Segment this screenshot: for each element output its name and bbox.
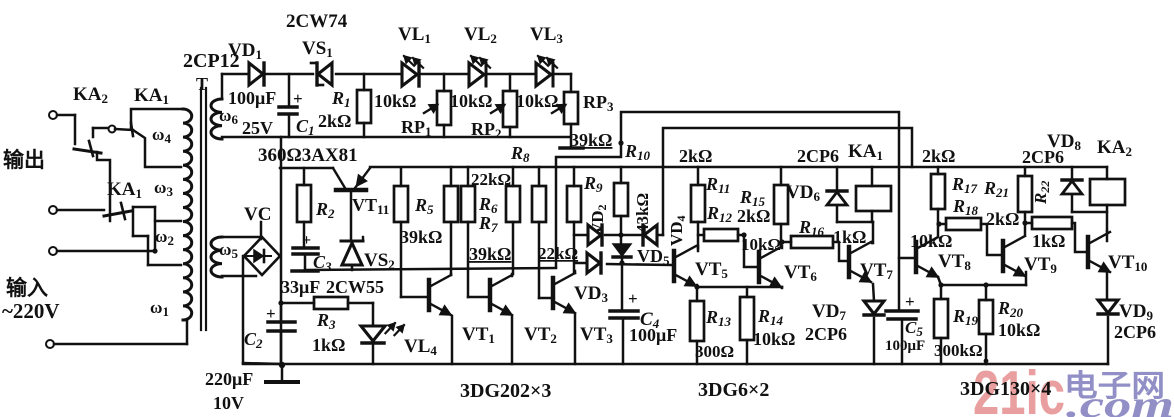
svg-text:输入: 输入 (6, 276, 48, 300)
resistor R13 (690, 301, 704, 364)
svg-text:10kΩ: 10kΩ (998, 320, 1040, 340)
label VT11 (352, 195, 389, 217)
label 39k R7 (469, 244, 511, 264)
ground (266, 365, 298, 382)
diode VD7 (864, 284, 884, 364)
svg-text:+: + (628, 289, 638, 308)
svg-text:.com: .com (1066, 384, 1174, 417)
relay contact KA2 (74, 141, 101, 156)
label R3 (316, 310, 336, 332)
node RP3 end bar (560, 146, 583, 150)
resistor R6 (444, 167, 458, 274)
capacitor C1 (279, 74, 297, 137)
svg-text:2CP6: 2CP6 (805, 324, 847, 344)
svg-text:2kΩ: 2kΩ (679, 146, 712, 166)
label 1k R22 (1032, 231, 1065, 251)
wire (837, 222, 873, 243)
transistor VT8 (916, 224, 938, 277)
wire fixed contact lower (133, 207, 181, 265)
svg-text:2CW55: 2CW55 (326, 277, 384, 297)
label 2k R11 (679, 146, 712, 166)
svg-text:100μF: 100μF (228, 88, 276, 108)
label 10k R14 (753, 329, 795, 349)
wire top rail Y1b (336, 73, 402, 76)
label 10V (213, 393, 244, 413)
label 10k a (374, 91, 416, 111)
svg-text:+: + (266, 304, 276, 323)
resistor R8b (506, 167, 520, 274)
relay coil KA1 (856, 167, 891, 222)
resistor R21 (1018, 167, 1032, 226)
node output terminal bottom (49, 206, 104, 214)
svg-text:2kΩ: 2kΩ (737, 206, 770, 226)
label C2 (244, 329, 263, 351)
svg-text:10kΩ: 10kΩ (374, 91, 416, 111)
label 3DG130x4 (960, 378, 1051, 400)
label R5 (414, 195, 434, 217)
label 3DG6x2 (698, 379, 769, 401)
svg-text:+: + (302, 232, 311, 249)
svg-text:~220V: ~220V (2, 299, 60, 323)
node ground junction (279, 362, 285, 368)
label T (196, 74, 208, 94)
potentiometer RP3 (552, 92, 578, 148)
label 25V (242, 118, 273, 138)
label 3DG202x3 (460, 380, 551, 402)
label R19 (952, 306, 979, 328)
wire (659, 234, 663, 237)
resistor R16 (782, 236, 846, 261)
capacitor C2 (268, 303, 295, 365)
label VS1 (302, 38, 333, 60)
label VT1 (462, 324, 495, 346)
label VD2 vert (588, 204, 609, 235)
wire bus VC (280, 137, 283, 365)
svg-text:2CP6: 2CP6 (1114, 322, 1156, 342)
capacitor C5 (886, 311, 918, 364)
label RP1 (401, 117, 432, 139)
label R10 (624, 141, 651, 163)
label 2CW74 (286, 11, 348, 32)
svg-text:39kΩ: 39kΩ (469, 244, 511, 264)
svg-text:1kΩ: 1kΩ (833, 227, 866, 247)
svg-text:2CP6: 2CP6 (1022, 147, 1064, 167)
resistor R20 (979, 282, 993, 364)
label C3 (313, 252, 332, 274)
LED VL1 arrows (404, 56, 423, 68)
svg-text:1kΩ: 1kΩ (312, 335, 345, 355)
label omega1 (150, 298, 169, 319)
svg-text:+: + (293, 89, 303, 108)
wire bridge top (260, 222, 263, 239)
node (779, 239, 784, 244)
capacitor C3 (293, 248, 318, 270)
label VL2 (464, 24, 497, 46)
diode VD1 (249, 63, 264, 85)
resistor R11 (691, 167, 705, 251)
resistor R14 (740, 287, 754, 364)
LED VL3 arrows (538, 56, 557, 68)
label R8 (510, 143, 530, 165)
svg-text:100μF: 100μF (629, 325, 677, 345)
label VD5 (637, 246, 670, 268)
zener VS2 (341, 237, 363, 270)
node input terminal bottom (46, 320, 187, 348)
wire VT5 base (607, 264, 671, 265)
label VD9 (1119, 301, 1153, 323)
label R6 (478, 194, 498, 216)
label VD1 (228, 40, 262, 62)
relay coil KA2 (1090, 179, 1125, 205)
svg-text:3DG130×4: 3DG130×4 (960, 378, 1051, 400)
wire rail end down (1106, 167, 1109, 231)
wire VT9 emitter return (941, 272, 1026, 285)
wire emitter rail (694, 284, 782, 301)
svg-text:2CP6: 2CP6 (797, 146, 839, 166)
LED VL3 (536, 63, 553, 86)
label VT2 (524, 324, 557, 346)
LED VL2 (469, 63, 486, 86)
wire rail Y3 right (370, 166, 1107, 169)
label VC (244, 204, 271, 225)
label omega5 (219, 240, 238, 261)
label VT5 (695, 259, 728, 281)
potentiometer RP2 (491, 74, 517, 137)
label VT10 (1108, 252, 1147, 274)
label C1 (296, 116, 315, 138)
svg-text:输出: 输出 (3, 148, 45, 172)
transistor VT9 (1003, 212, 1025, 276)
label 33uF (281, 277, 320, 297)
svg-text:2CW74: 2CW74 (286, 11, 348, 32)
label 1k R16 (833, 227, 866, 247)
label VT7 (860, 260, 893, 282)
transistor VT6 (759, 246, 782, 288)
node (618, 140, 623, 145)
transistor VT7 (849, 242, 872, 282)
wire Y2b (663, 128, 912, 235)
bridge rectifier VC (244, 237, 280, 275)
resistor R3 (278, 297, 373, 309)
node (619, 260, 624, 265)
label R1 (331, 88, 351, 110)
label KA1 lower (107, 179, 142, 201)
wire emitter (938, 277, 944, 299)
label C2 plus (266, 304, 276, 323)
svg-text:33μF: 33μF (281, 277, 320, 297)
label VT9 (1024, 254, 1057, 276)
label 100uF C4 (629, 325, 677, 345)
label 2CW55 (326, 277, 384, 297)
diode VD8 (1062, 167, 1082, 212)
label C3 plus (302, 232, 311, 249)
resistor R8c (532, 167, 550, 298)
label VD6 (786, 182, 820, 204)
wire VD8 bottom (1072, 211, 1107, 214)
label 43k vert (633, 193, 652, 233)
svg-text:10kΩ: 10kΩ (753, 329, 795, 349)
transistor VT5 (674, 246, 698, 286)
relay contact KA1 lower arm (104, 203, 131, 219)
label 39k RP3 (570, 130, 612, 150)
LED VL2 arrows (471, 56, 490, 68)
wire bottom rail Y4 (243, 363, 1108, 366)
svg-text:100μF: 100μF (885, 338, 925, 354)
transistor VT1 (429, 274, 452, 364)
label 2CP12 (183, 50, 240, 72)
resistor R7 (461, 167, 487, 297)
svg-text:2kΩ: 2kΩ (986, 209, 1019, 229)
node output terminal top (49, 111, 75, 119)
label 100uF C5 (885, 338, 925, 354)
transformer T primary winding (183, 109, 192, 320)
svg-text:39kΩ: 39kΩ (400, 227, 442, 247)
label 300k R19 (934, 341, 983, 360)
transistor VT3 (553, 271, 575, 364)
wire Y1b sense (556, 112, 899, 311)
label 2CP6 VD9 (1114, 322, 1156, 342)
wire (421, 73, 469, 76)
zener VS1 (311, 63, 332, 85)
LED VL4 (361, 303, 385, 364)
label R16 (798, 217, 825, 239)
LED VL1 (402, 63, 419, 86)
label VL4 (404, 336, 437, 358)
resistor R22h 1k (1025, 217, 1086, 252)
label 10k b (450, 91, 492, 111)
wire coil mid tap (155, 220, 181, 223)
label RP2 (471, 119, 502, 141)
wire rail Y2 (222, 136, 571, 139)
wire Y5 bias (292, 268, 556, 271)
wire (1106, 273, 1109, 300)
svg-text:39kΩ: 39kΩ (570, 130, 612, 150)
svg-text:300kΩ: 300kΩ (934, 341, 983, 360)
label omega4 (152, 125, 171, 146)
wire (74, 115, 77, 144)
label 10k R15 (741, 235, 781, 254)
svg-text:220μF: 220μF (205, 369, 253, 389)
resistor R15 (774, 167, 788, 247)
label RP3 (583, 92, 614, 114)
transistor VT10 (1088, 231, 1110, 272)
node (936, 221, 941, 226)
wire VT8 base (899, 257, 916, 260)
label VS2 (364, 250, 395, 272)
label KA1 upper (134, 85, 169, 107)
label R22 vert (1031, 181, 1052, 205)
label 300 R13 (695, 342, 734, 361)
svg-text:3DG202×3: 3DG202×3 (460, 380, 551, 402)
label C5 plus (905, 292, 915, 311)
resistor R1 (357, 74, 371, 137)
resistor R17 (931, 167, 945, 224)
transistor VT11 PNP (333, 168, 370, 241)
svg-text:25V: 25V (242, 118, 273, 138)
label 220uF (205, 369, 253, 389)
label R21 (983, 178, 1009, 200)
label C5 (905, 318, 923, 339)
transistor VT2 (490, 274, 512, 364)
label VD3 (574, 283, 608, 305)
label KA2 (73, 84, 108, 106)
svg-text:2kΩ: 2kΩ (922, 146, 955, 166)
transformer winding omega5 (211, 237, 259, 277)
svg-text:1kΩ: 1kΩ (1032, 231, 1065, 251)
label VT3 (580, 324, 613, 346)
label R7 (478, 213, 498, 235)
wire bridge left to ground (243, 256, 281, 364)
label VL3 (530, 24, 563, 46)
resistor R12 (698, 229, 744, 241)
diode VD5 (613, 235, 631, 263)
label R9 (583, 173, 603, 195)
svg-text:10kΩ: 10kΩ (516, 91, 558, 111)
label R11 (705, 174, 730, 196)
label R15 (739, 187, 766, 209)
label 10k c (516, 91, 558, 111)
node (618, 232, 623, 237)
resistor R2 (297, 168, 311, 246)
label omega6 (219, 106, 238, 127)
resistor R9 22k (567, 167, 581, 273)
label 22k R6 (471, 170, 511, 189)
label 10k R20 (998, 320, 1040, 340)
label VD7 (812, 301, 846, 323)
wire (97, 152, 110, 221)
label R14 (757, 306, 784, 328)
svg-text:VC: VC (244, 204, 271, 225)
wire (574, 234, 588, 237)
label KA2 relay (1097, 137, 1132, 159)
diode VD2 (588, 225, 621, 245)
label omega3 (154, 178, 173, 199)
wire (575, 262, 587, 265)
label C1 plus (293, 89, 303, 108)
svg-text:3DG6×2: 3DG6×2 (698, 379, 769, 401)
wire top rail Y1 (266, 73, 313, 76)
svg-text:T: T (196, 74, 208, 94)
text ~220V (2, 299, 60, 323)
LED VL4 arrows (385, 323, 404, 335)
label 2k R17 (922, 146, 955, 166)
wire coil top lead (131, 109, 183, 128)
svg-text:22kΩ: 22kΩ (538, 244, 578, 263)
svg-text:300Ω: 300Ω (695, 342, 734, 361)
label omega2 (155, 227, 174, 248)
label 2CP6 KA1 (797, 146, 839, 166)
label 2k R21 (986, 209, 1019, 229)
text input 输入 (6, 276, 48, 300)
svg-text:2kΩ: 2kΩ (318, 111, 351, 131)
watermark 21ic (973, 359, 1065, 417)
label 2k R12 (737, 206, 770, 226)
label 360ohm 3AX81 (258, 145, 358, 166)
label C4 plus (628, 289, 638, 308)
label R17 (951, 174, 978, 196)
label 2CP6 VD7 (805, 324, 847, 344)
wire (488, 73, 536, 76)
wire contact gap upper (93, 128, 108, 137)
svg-text:+: + (905, 292, 915, 311)
label 1k R3 (312, 335, 345, 355)
text output 输出 (3, 148, 45, 172)
label R12 (706, 203, 733, 225)
label R2 (315, 199, 335, 221)
label VL1 (398, 24, 431, 46)
diode VD6 (827, 167, 847, 222)
relay contact KA1 upper (109, 123, 182, 167)
label KA1 relay (848, 141, 883, 163)
label 39k R5 (400, 227, 442, 247)
label R20 (997, 298, 1024, 320)
svg-text:10kΩ: 10kΩ (450, 91, 492, 111)
wire (555, 74, 571, 92)
resistor R5 (394, 168, 426, 297)
label 22k R8c (538, 244, 578, 263)
label R13 (705, 307, 732, 329)
diode VD9 (1098, 300, 1118, 364)
label 10k R18 (910, 231, 952, 251)
resistor R19 (934, 299, 948, 364)
watermark dianziwang (1064, 370, 1165, 403)
label VD4 vert (667, 215, 688, 246)
label VT8 (938, 251, 971, 273)
label C4 (640, 309, 660, 331)
wire rail Y3 left (280, 167, 333, 170)
label VT6 (784, 262, 817, 284)
transformer winding omega6 (211, 74, 249, 139)
label VD8 (1047, 131, 1081, 153)
node input terminal top (49, 247, 158, 255)
capacitor C4 (610, 263, 638, 364)
resistor 43k (614, 167, 628, 235)
diode VD3 (587, 253, 601, 273)
label 2CP6 VD8 (1022, 147, 1064, 167)
wire VT6 base (741, 232, 756, 267)
label 2k (318, 111, 351, 131)
svg-text:360Ω3AX81: 360Ω3AX81 (258, 145, 358, 166)
diode VD4 (621, 225, 657, 245)
resistor R18 (939, 218, 1000, 255)
potentiometer RP1 (424, 74, 451, 137)
svg-text:10V: 10V (213, 393, 244, 413)
watermark com (1066, 384, 1174, 417)
transformer core (201, 88, 206, 330)
label 100uF (228, 88, 276, 108)
label R18 (952, 196, 979, 218)
